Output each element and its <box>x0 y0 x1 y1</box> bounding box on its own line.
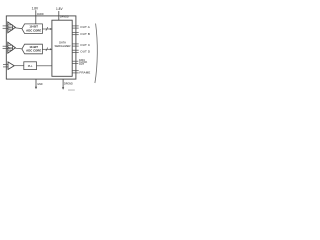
svg-text:OUT A: OUT A <box>80 25 90 29</box>
clock buffer amplifier <box>8 62 14 70</box>
svg-text:OUT D: OUT D <box>80 49 91 53</box>
svg-text:GND: GND <box>37 83 43 86</box>
svg-text:ADC CORE: ADC CORE <box>26 49 41 53</box>
wire OUT+B <box>72 32 79 34</box>
svg-text:SERIALIZER: SERIALIZER <box>55 44 71 48</box>
svg-text:DATA: DATA <box>59 40 66 44</box>
wire OUT+A <box>72 25 79 27</box>
wire clock buffer to PLL <box>14 65 24 67</box>
svg-text:FRAME: FRAME <box>79 71 90 75</box>
wire SHA to ADC core A <box>15 27 22 30</box>
wire ADC core A to serializer <box>42 28 51 30</box>
PLL block <box>24 62 37 70</box>
SHA box channel A <box>8 25 13 30</box>
wire AVDD supply line <box>35 10 37 23</box>
wire PLL to serializer <box>37 65 52 67</box>
SHA box channel B <box>8 45 13 50</box>
wire DCO- <box>72 62 78 64</box>
wire DRVDD supply line <box>58 11 60 20</box>
wire DRGND pin <box>62 79 64 88</box>
wire OUT-A <box>72 27 79 29</box>
bus slash channel A <box>46 27 48 30</box>
wire VIN+A input <box>3 25 8 27</box>
wire VIN-B input <box>3 48 8 50</box>
svg-text:AVDD: AVDD <box>37 13 44 16</box>
svg-text:OUT: OUT <box>79 63 85 66</box>
svg-text:PLL: PLL <box>28 64 33 68</box>
figure number smudge <box>68 90 75 91</box>
ADC core A <box>22 24 43 34</box>
arrowhead GND <box>35 87 37 90</box>
arrowhead into serializer B <box>50 48 52 50</box>
wire OUT-B <box>72 34 79 36</box>
brace grouping serial outputs <box>95 24 97 84</box>
svg-text:DRGND: DRGND <box>64 82 73 85</box>
wire OUT+D <box>72 49 79 51</box>
wire OUT+C <box>72 43 79 45</box>
bus slash channel B <box>46 48 48 51</box>
wire FCO- <box>72 72 79 74</box>
svg-text:SHA: SHA <box>8 27 13 30</box>
svg-text:DRVDD: DRVDD <box>60 16 69 19</box>
arrowhead DRGND <box>62 87 64 90</box>
svg-text:OUT B: OUT B <box>80 32 90 36</box>
amplifier SHA channel A <box>8 22 16 33</box>
svg-text:1.8V: 1.8V <box>32 6 39 10</box>
svg-text:SHA: SHA <box>8 47 13 50</box>
wire DCO+ <box>72 60 78 62</box>
chip outline U1 <box>6 16 76 79</box>
svg-text:OUT C: OUT C <box>80 43 91 47</box>
wire CLK+ input <box>3 64 8 66</box>
ADC core B <box>22 44 43 54</box>
wire SHA to ADC core B <box>15 47 22 50</box>
wire VIN+B input <box>3 45 8 47</box>
svg-text:1.8V: 1.8V <box>56 7 63 11</box>
wire GND pin <box>35 79 37 87</box>
wire OUT-C <box>72 45 79 47</box>
data serializer block <box>52 20 72 76</box>
wire CLK- input <box>3 66 8 68</box>
wire VIN-A input <box>3 27 8 29</box>
wire ADC core B to serializer <box>42 48 51 50</box>
svg-text:ADC CORE: ADC CORE <box>26 28 41 32</box>
wire OUT-D <box>72 51 79 53</box>
arrowhead into serializer A <box>50 28 52 30</box>
wire FCO+ <box>72 70 79 72</box>
amplifier SHA channel B <box>8 42 16 53</box>
